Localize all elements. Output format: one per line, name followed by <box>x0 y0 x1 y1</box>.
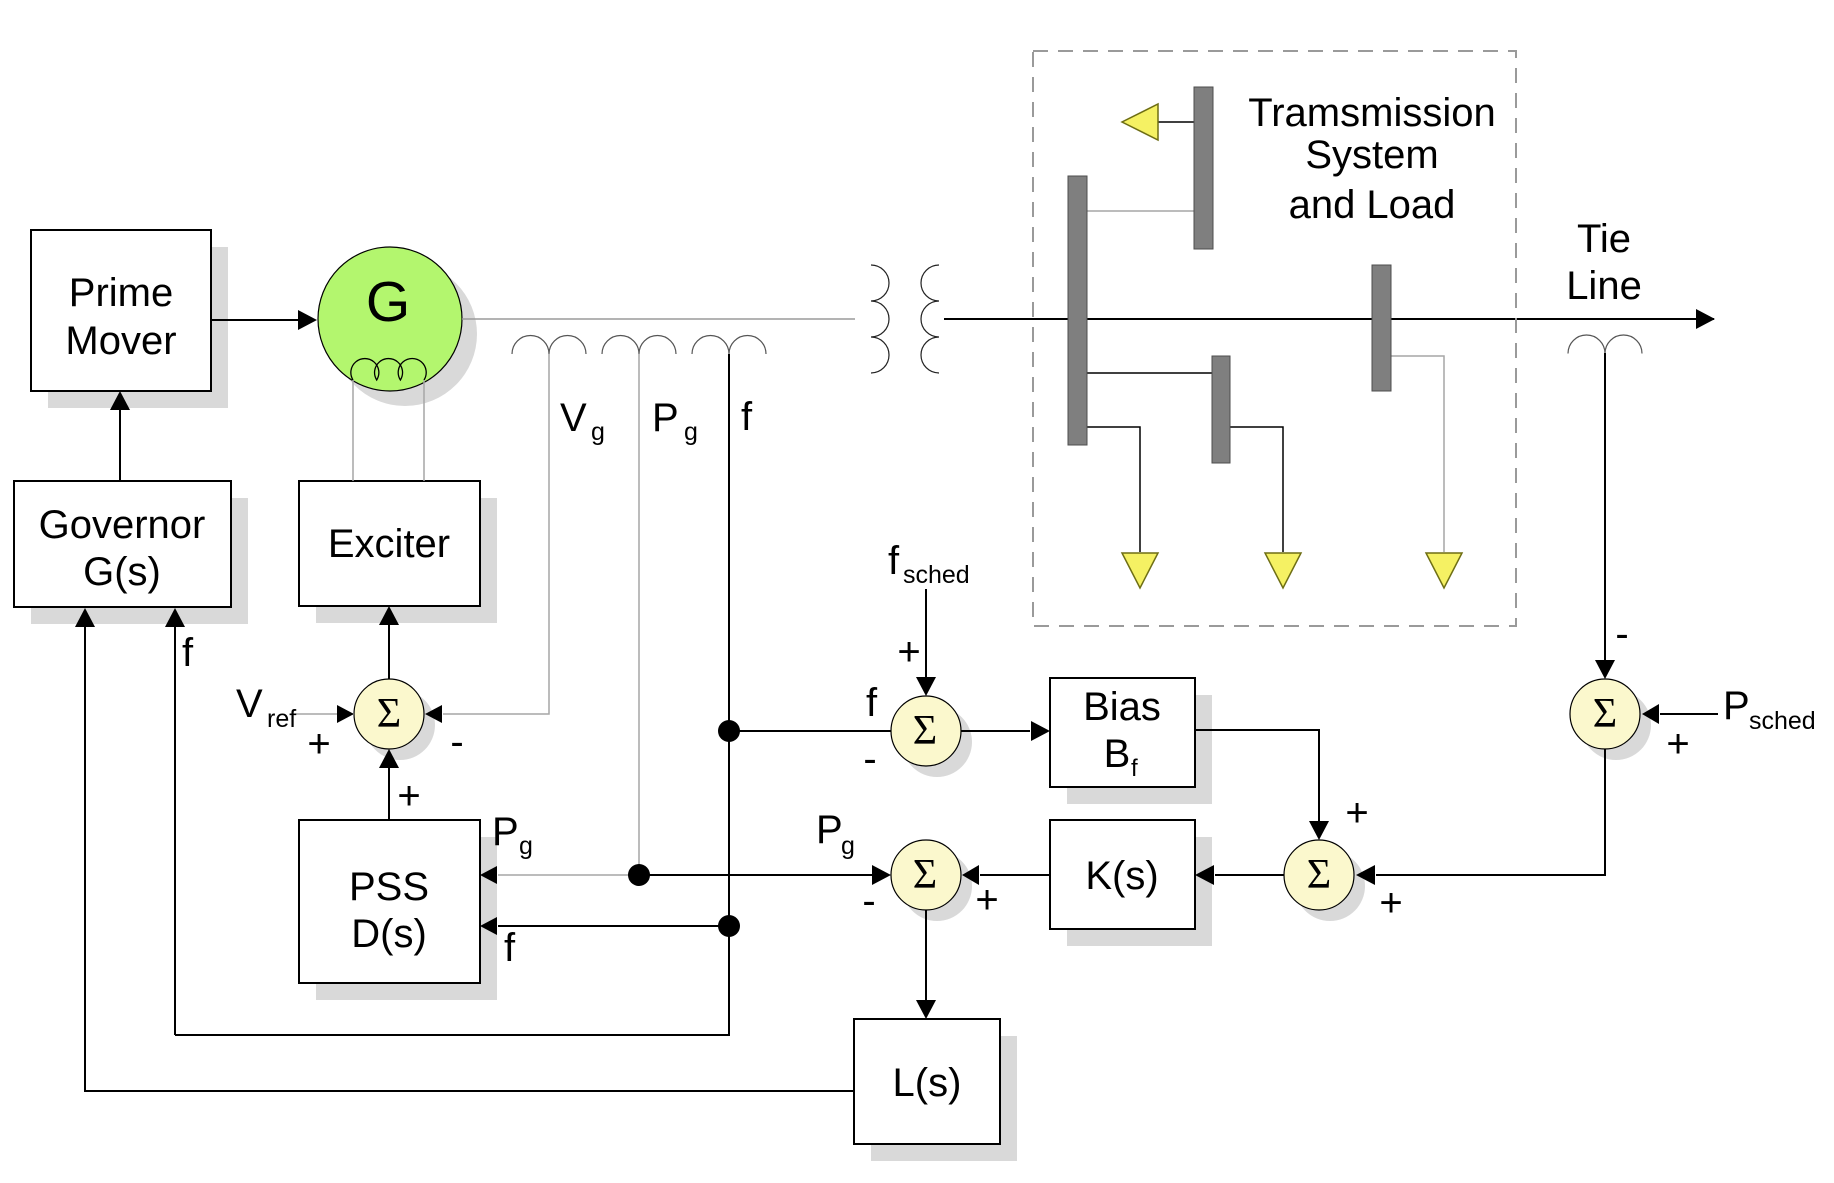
svg-text:+: + <box>1345 791 1368 835</box>
load 2 triangle <box>1265 553 1301 588</box>
busbar C middle <box>1212 356 1230 463</box>
svg-text:Prime: Prime <box>69 271 173 315</box>
svg-text:g: g <box>684 418 698 446</box>
svg-text:f: f <box>866 681 878 725</box>
box Bias Bf <box>1050 678 1195 787</box>
wire f sum to Bias <box>961 721 1050 741</box>
label f sched <box>888 539 970 589</box>
wire Bias to AGC sum <box>1195 730 1329 840</box>
wire generator to exciter left <box>352 380 354 481</box>
junction dot f lower <box>718 915 740 937</box>
svg-text:+: + <box>897 630 920 674</box>
svg-text:g: g <box>519 832 533 860</box>
svg-text:Governor: Governor <box>39 503 206 547</box>
tie line coil <box>1568 335 1642 354</box>
label Vg <box>560 396 605 446</box>
svg-text:Σ: Σ <box>913 708 937 754</box>
pickup coil f <box>692 336 766 355</box>
busbar A top <box>1194 87 1213 249</box>
wire f feedback up to Governor <box>165 608 185 1035</box>
svg-text:K(s): K(s) <box>1085 854 1158 898</box>
wire tie line to P_sched sum <box>1595 353 1615 679</box>
svg-text:Bias: Bias <box>1083 685 1161 729</box>
wire Governor to Prime Mover <box>110 391 130 481</box>
wire P_sched sum down and to AGC sum <box>1356 749 1605 885</box>
svg-text:P: P <box>492 810 519 854</box>
svg-text:D(s): D(s) <box>351 912 427 956</box>
SHADOWS-LAYER <box>31 247 1651 1161</box>
svg-text:+: + <box>1666 722 1689 766</box>
busbar B left <box>1068 176 1087 445</box>
wire f junction to PSS input <box>480 917 729 935</box>
wire bus C to load 2 <box>1230 427 1283 552</box>
svg-text:f: f <box>1131 755 1138 782</box>
sum Pg <box>891 840 961 910</box>
svg-text:sched: sched <box>1749 707 1816 735</box>
svg-text:g: g <box>841 832 855 860</box>
transmission system dashed box <box>1033 51 1516 626</box>
box PSS D(s) <box>299 820 480 983</box>
svg-text:sched: sched <box>903 561 970 589</box>
svg-text:Exciter: Exciter <box>328 522 450 566</box>
svg-text:f: f <box>182 631 194 675</box>
label Vref <box>236 682 296 733</box>
svg-text:V: V <box>236 682 263 726</box>
svg-text:-: - <box>450 720 463 764</box>
wire Vref sum to Exciter <box>379 606 399 679</box>
svg-text:P: P <box>816 808 843 852</box>
svg-text:-: - <box>1615 612 1628 656</box>
sum Vref <box>354 679 424 749</box>
svg-text:Σ: Σ <box>377 691 401 737</box>
wire generator to transformer (bus) <box>462 318 855 320</box>
svg-text:-: - <box>862 879 875 923</box>
svg-text:L(s): L(s) <box>893 1061 962 1105</box>
label Pg at sum <box>816 808 855 860</box>
label Pg at PSS input <box>492 810 533 860</box>
export triangle pointing left <box>1122 104 1158 140</box>
svg-text:f: f <box>888 539 900 583</box>
wire transformer to tie line with arrow <box>944 309 1715 329</box>
svg-text:+: + <box>1379 881 1402 925</box>
wire generator to exciter right <box>423 380 425 481</box>
wire f junction to f sum <box>729 730 892 732</box>
svg-text:-: - <box>863 737 876 781</box>
svg-text:f: f <box>504 926 516 970</box>
sum P_sched <box>1570 679 1640 749</box>
box Exciter <box>299 481 480 606</box>
svg-text:Σ: Σ <box>913 852 937 898</box>
wire bus D to load 3 <box>1391 356 1444 552</box>
generator G <box>318 247 462 391</box>
svg-text:G(s): G(s) <box>83 550 161 594</box>
junction dot Pg <box>628 864 650 886</box>
wire Vref label to sum <box>296 705 354 723</box>
wire PSS to Vref sum <box>379 749 399 820</box>
pickup coil Vg <box>512 336 586 355</box>
label Transmission System and Load <box>1248 91 1495 227</box>
svg-text:B: B <box>1104 732 1131 776</box>
wire Pg tap down to junction <box>638 354 640 875</box>
wire bus A to export arrow <box>1157 121 1194 123</box>
svg-text:Mover: Mover <box>65 319 176 363</box>
svg-text:Line: Line <box>1566 264 1642 308</box>
wire bus B to bus C <box>1087 372 1212 374</box>
wire P_sched label to sum <box>1642 704 1718 724</box>
svg-text:+: + <box>307 722 330 766</box>
box Prime Mover <box>31 230 211 391</box>
svg-text:P: P <box>652 396 679 440</box>
busbar D right <box>1372 265 1391 391</box>
wire L(s) feedback to Governor <box>75 608 854 1091</box>
transformer primary coil <box>871 265 889 373</box>
svg-text:System: System <box>1305 133 1438 177</box>
label P_sched <box>1723 684 1816 735</box>
svg-text:Σ: Σ <box>1307 852 1331 898</box>
box L(s) <box>854 1019 1000 1144</box>
svg-text:Tramsmission: Tramsmission <box>1248 91 1495 135</box>
transformer secondary coil <box>921 265 939 373</box>
pickup coil Pg <box>602 336 676 355</box>
svg-text:+: + <box>397 774 420 818</box>
svg-text:P: P <box>1723 684 1750 728</box>
svg-text:g: g <box>591 418 605 446</box>
svg-text:V: V <box>560 396 587 440</box>
wire bus B to load 1 <box>1087 427 1140 552</box>
svg-text:G: G <box>366 270 410 334</box>
wire K(s) to left sum <box>962 865 1050 885</box>
box Governor G(s) <box>14 481 231 607</box>
wire AGC sum to K(s) <box>1195 865 1284 885</box>
label Pg tap <box>652 396 698 446</box>
wire f tap down to corner <box>175 354 729 1035</box>
sum AGC <box>1284 840 1354 910</box>
svg-text:and Load: and Load <box>1289 183 1456 227</box>
svg-text:PSS: PSS <box>349 865 429 909</box>
box K(s) <box>1050 820 1195 929</box>
load 3 triangle <box>1426 553 1462 588</box>
svg-text:Tie: Tie <box>1577 217 1631 261</box>
wire Prime Mover to generator <box>211 310 317 330</box>
wire Vg tap down and into Vref sum <box>425 354 549 723</box>
wire Pg junction to PSS input <box>480 866 639 884</box>
svg-text:f: f <box>741 395 753 439</box>
svg-text:Σ: Σ <box>1593 691 1617 737</box>
svg-text:+: + <box>975 878 998 922</box>
wire f_sched to f sum <box>916 589 936 696</box>
wire Pg junction to left sum <box>639 865 891 885</box>
sum f <box>891 696 961 766</box>
wire Pg sum to L(s) <box>916 910 936 1019</box>
load 1 triangle <box>1122 553 1158 588</box>
label Tie Line <box>1566 217 1642 308</box>
generator winding coil <box>351 358 426 380</box>
wire bus B to bus A <box>1087 210 1194 212</box>
svg-text:ref: ref <box>267 705 296 733</box>
junction dot f upper <box>718 720 740 742</box>
